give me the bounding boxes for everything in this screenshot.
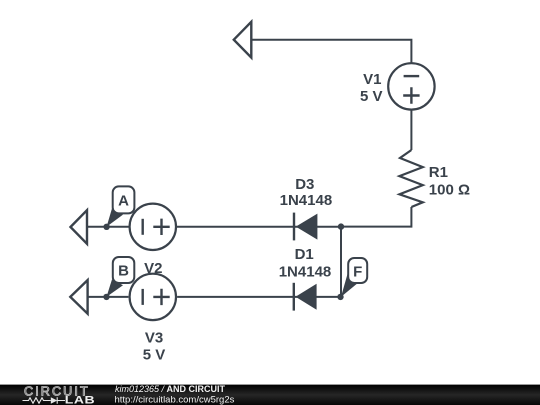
junction dot node F top — [338, 223, 344, 229]
svg-text:F: F — [353, 263, 362, 280]
svg-text:1N4148: 1N4148 — [279, 264, 332, 281]
terminal arrow (top net, pointing left) — [234, 22, 252, 58]
junction dot net B — [103, 294, 109, 300]
svg-text:LAB: LAB — [65, 394, 95, 405]
svg-text:5 V: 5 V — [360, 88, 383, 105]
svg-text:V3: V3 — [145, 330, 163, 347]
wire arrow B to source — [89, 296, 129, 298]
wire arrow A to source — [88, 226, 129, 228]
node flag F — [348, 258, 367, 283]
diode D1 triangle — [296, 284, 317, 310]
resistor R1 — [399, 150, 422, 207]
wire V1 to R1 — [410, 110, 412, 150]
svg-text:D1: D1 — [295, 246, 314, 263]
svg-text:R1: R1 — [429, 164, 448, 181]
voltage source V1 — [388, 63, 434, 109]
wire source B to diode D1 — [177, 296, 340, 298]
svg-text:5 V: 5 V — [143, 347, 166, 364]
svg-text:100 Ω: 100 Ω — [429, 182, 470, 199]
terminal arrow (net B, pointing left) — [70, 280, 87, 314]
footer bar background — [0, 385, 540, 405]
node flag A — [113, 186, 135, 213]
source row A minus bar — [141, 219, 143, 235]
source row A plus sign — [153, 219, 169, 235]
node flag B pointer wedge — [107, 279, 124, 297]
svg-text:B: B — [118, 263, 129, 280]
svg-text:D3: D3 — [295, 176, 314, 193]
svg-text:V1: V1 — [363, 71, 381, 88]
terminal arrow (net A, pointing left) — [71, 210, 88, 244]
wire source A to diode D3 — [177, 226, 341, 228]
svg-text:http://circuitlab.com/cw5rg2s: http://circuitlab.com/cw5rg2s — [115, 394, 235, 405]
junction dot node F bottom — [337, 294, 343, 300]
V1 minus sign — [404, 75, 420, 77]
wire R1 to node row — [341, 207, 411, 227]
footer logo diode bar and wire — [57, 397, 65, 404]
diode D1 cathode bar — [293, 283, 295, 311]
node flag A pointer wedge — [107, 209, 123, 227]
junction dot net A — [103, 224, 109, 230]
footer logo resistor zigzag — [23, 398, 51, 403]
node flag F pointer wedge — [341, 274, 359, 297]
V1 plus sign — [403, 87, 419, 104]
svg-text:A: A — [118, 193, 129, 210]
source row B plus sign — [153, 289, 169, 305]
svg-text:kim012365 / AND CIRCUIT: kim012365 / AND CIRCUIT — [115, 384, 226, 394]
footer logo diode — [51, 397, 57, 404]
source row B minus bar — [141, 289, 143, 305]
voltage source (row A) — [130, 204, 176, 250]
svg-text:1N4148: 1N4148 — [280, 192, 333, 209]
diode D3 triangle — [296, 214, 318, 240]
voltage source (row B) — [130, 274, 176, 320]
diode D3 cathode bar — [293, 213, 295, 241]
node flag B — [113, 257, 135, 283]
wire node F vertical — [340, 227, 342, 297]
wire top horizontal — [252, 40, 411, 63]
